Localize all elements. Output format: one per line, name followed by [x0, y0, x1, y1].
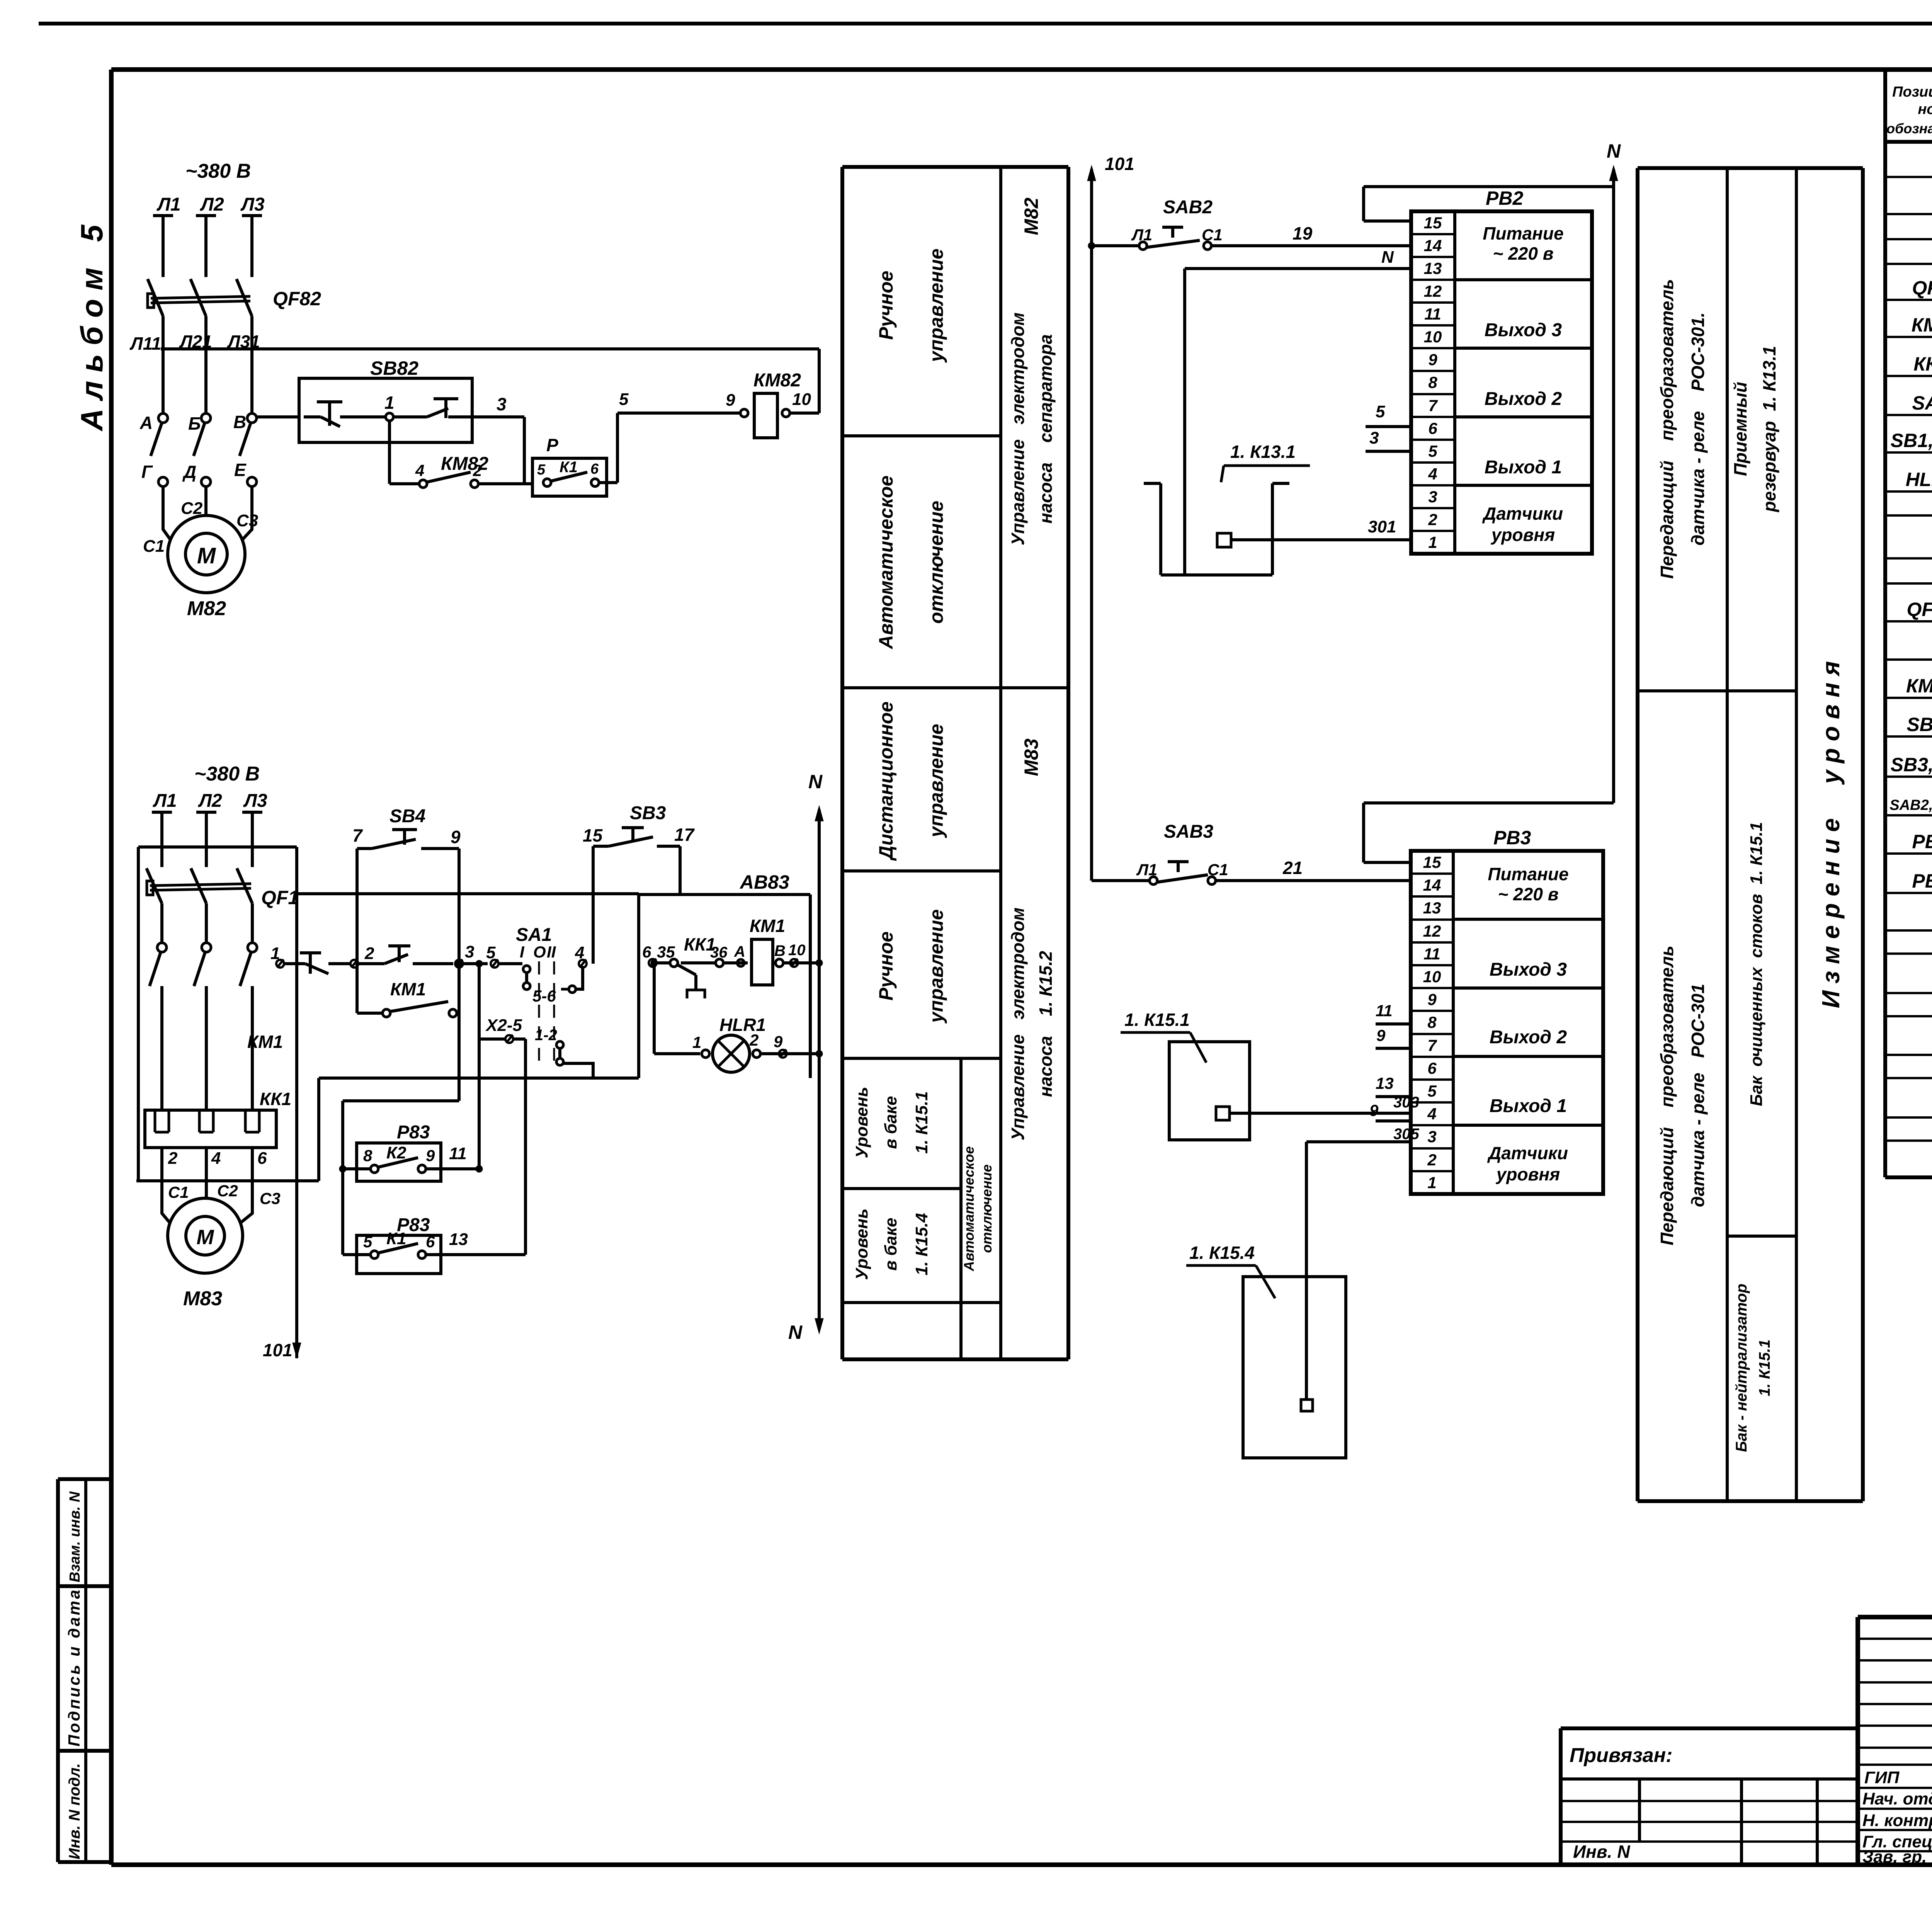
svg-text:QF1: QF1 — [1912, 277, 1932, 299]
svg-text:I: I — [520, 943, 525, 961]
svg-text:9: 9 — [1369, 1101, 1379, 1119]
svg-text:5: 5 — [363, 1233, 372, 1251]
svg-text:SB1,SB2: SB1,SB2 — [1891, 430, 1932, 451]
svg-text:Подпись и дата: Подпись и дата — [65, 1588, 83, 1747]
svg-text:Инв. N: Инв. N — [1573, 1842, 1630, 1862]
svg-text:С1: С1 — [1207, 861, 1228, 879]
svg-text:SB3,SB4: SB3,SB4 — [1891, 754, 1932, 776]
svg-text:1. К15.1: 1. К15.1 — [1756, 1340, 1773, 1396]
svg-text:2: 2 — [168, 1149, 178, 1168]
svg-text:Датчики: Датчики — [1487, 1143, 1568, 1163]
svg-text:Выход 2: Выход 2 — [1485, 389, 1562, 409]
svg-text:1. К15.4: 1. К15.4 — [912, 1213, 931, 1276]
svg-text:8: 8 — [363, 1146, 372, 1165]
svg-text:7: 7 — [1428, 396, 1438, 415]
svg-text:14: 14 — [1423, 876, 1441, 894]
svg-text:II: II — [547, 943, 556, 961]
svg-text:Выход 1: Выход 1 — [1485, 457, 1562, 478]
svg-text:КМ82: КМ82 — [1906, 675, 1932, 697]
svg-text:4: 4 — [1427, 1105, 1436, 1123]
svg-text:13: 13 — [1424, 259, 1442, 277]
svg-text:15: 15 — [1423, 853, 1441, 871]
svg-text:АВ83: АВ83 — [739, 871, 789, 893]
svg-text:9: 9 — [1376, 1026, 1386, 1044]
svg-text:Ручное: Ручное — [875, 932, 897, 1001]
svg-text:9: 9 — [451, 827, 461, 847]
svg-text:КК1: КК1 — [260, 1089, 291, 1109]
svg-text:С1: С1 — [143, 537, 165, 556]
svg-text:Д: Д — [182, 462, 196, 482]
svg-text:5: 5 — [537, 462, 546, 478]
svg-text:А: А — [734, 943, 745, 960]
svg-text:Взам. инв. N: Взам. инв. N — [67, 1491, 83, 1582]
svg-text:управление: управление — [925, 248, 947, 363]
svg-text:2: 2 — [1428, 510, 1437, 529]
svg-text:Приемный: Приемный — [1730, 382, 1750, 476]
svg-text:отключение: отключение — [979, 1164, 995, 1253]
svg-text:В: В — [233, 412, 246, 432]
svg-text:SAB3: SAB3 — [1164, 821, 1213, 842]
svg-text:SAB2,SAB3: SAB2,SAB3 — [1889, 797, 1932, 813]
svg-text:5: 5 — [619, 390, 629, 409]
svg-text:10: 10 — [792, 390, 811, 409]
svg-text:6: 6 — [642, 943, 651, 961]
svg-text:Л3: Л3 — [243, 791, 267, 811]
svg-text:Р: Р — [546, 435, 558, 455]
svg-text:КМ1: КМ1 — [247, 1032, 283, 1052]
svg-text:Выход 1: Выход 1 — [1490, 1096, 1567, 1116]
svg-text:2: 2 — [749, 1031, 759, 1049]
svg-text:М82: М82 — [1020, 197, 1042, 235]
svg-text:С1: С1 — [1202, 226, 1223, 244]
svg-text:Питание: Питание — [1488, 864, 1568, 884]
svg-text:Передающий преобразователь: Передающий преобразователь — [1657, 279, 1677, 579]
svg-text:1. К15.4: 1. К15.4 — [1189, 1243, 1255, 1263]
svg-text:К1: К1 — [560, 459, 578, 476]
svg-text:Передающий преобразователь: Передающий преобразователь — [1657, 946, 1677, 1245]
svg-text:управление: управление — [925, 909, 947, 1024]
svg-text:управление: управление — [925, 724, 947, 838]
svg-text:Х2-5: Х2-5 — [485, 1016, 522, 1035]
svg-text:5: 5 — [1376, 402, 1385, 421]
svg-text:9: 9 — [1428, 350, 1437, 369]
svg-text:датчика - реле РОС-301.: датчика - реле РОС-301. — [1688, 312, 1708, 546]
svg-text:уровня: уровня — [1496, 1164, 1560, 1184]
svg-text:КМ1: КМ1 — [750, 916, 785, 936]
svg-text:Л1: Л1 — [1131, 226, 1152, 244]
svg-text:в баке: в баке — [881, 1218, 900, 1270]
svg-text:отключение: отключение — [925, 501, 947, 624]
svg-text:М83: М83 — [183, 1287, 222, 1310]
svg-text:7: 7 — [1427, 1036, 1437, 1054]
svg-text:SB82: SB82 — [1906, 714, 1932, 735]
svg-text:Л11: Л11 — [129, 333, 161, 354]
svg-text:КМ82: КМ82 — [753, 370, 801, 391]
svg-text:уровня: уровня — [1491, 525, 1555, 545]
svg-text:6: 6 — [1427, 1059, 1437, 1077]
svg-text:1. К15.1: 1. К15.1 — [1124, 1010, 1190, 1030]
svg-text:N: N — [808, 771, 823, 793]
svg-text:ГИП: ГИП — [1864, 1768, 1900, 1787]
svg-text:2: 2 — [364, 944, 374, 963]
svg-text:РВ2: РВ2 — [1486, 187, 1523, 209]
svg-text:11: 11 — [1424, 305, 1441, 323]
svg-text:9: 9 — [1427, 990, 1437, 1009]
svg-text:6: 6 — [1428, 419, 1437, 437]
svg-text:Л2: Л2 — [200, 194, 224, 215]
svg-text:3: 3 — [465, 942, 474, 961]
svg-text:35: 35 — [657, 943, 675, 961]
svg-text:~380 В: ~380 В — [194, 763, 260, 785]
svg-text:14: 14 — [1424, 236, 1442, 255]
svg-text:SA1: SA1 — [1912, 392, 1932, 414]
svg-text:SAB2: SAB2 — [1163, 197, 1213, 218]
svg-text:К2: К2 — [386, 1143, 406, 1162]
svg-text:Датчики: Датчики — [1482, 503, 1563, 524]
svg-text:Альбом 5: Альбом 5 — [75, 216, 109, 432]
svg-text:Выход 2: Выход 2 — [1490, 1027, 1567, 1048]
svg-text:4: 4 — [211, 1149, 221, 1168]
svg-text:3: 3 — [497, 394, 507, 414]
svg-text:Бак очищенных стоков 1. К15: Бак очищенных стоков 1. К15.1 — [1747, 822, 1766, 1106]
svg-text:Уровень: Уровень — [852, 1208, 871, 1280]
svg-text:QF82: QF82 — [273, 288, 321, 310]
svg-text:2: 2 — [1427, 1151, 1436, 1169]
svg-text:Управление электродом: Управление электродом — [1008, 908, 1028, 1141]
svg-text:датчика - реле РОС-301: датчика - реле РОС-301 — [1688, 984, 1708, 1207]
svg-text:101: 101 — [1105, 154, 1134, 174]
svg-text:~380 В: ~380 В — [185, 160, 251, 182]
svg-text:11: 11 — [1423, 945, 1440, 963]
svg-text:1: 1 — [1428, 533, 1437, 551]
svg-text:10: 10 — [1424, 328, 1442, 346]
svg-text:6: 6 — [590, 461, 599, 477]
svg-text:Р83: Р83 — [397, 1122, 430, 1143]
svg-text:13: 13 — [449, 1230, 468, 1249]
svg-text:5: 5 — [1427, 1082, 1437, 1100]
svg-text:Б: Б — [188, 413, 201, 434]
svg-text:Питание: Питание — [1483, 223, 1563, 243]
svg-text:13: 13 — [1423, 899, 1441, 917]
svg-text:обозначение: обозначение — [1886, 121, 1932, 136]
svg-text:9: 9 — [426, 1146, 435, 1165]
svg-text:Л3: Л3 — [240, 194, 265, 215]
svg-text:N: N — [1607, 140, 1621, 162]
svg-text:N: N — [1381, 248, 1394, 267]
svg-text:Е: Е — [234, 460, 247, 480]
svg-text:РВ3: РВ3 — [1912, 870, 1932, 892]
svg-text:М83: М83 — [1020, 738, 1042, 776]
svg-text:HLR1: HLR1 — [1906, 469, 1932, 490]
svg-text:1: 1 — [384, 393, 395, 413]
svg-text:Дистанционное: Дистанционное — [875, 701, 897, 861]
svg-text:1: 1 — [1427, 1173, 1436, 1192]
svg-text:6: 6 — [426, 1233, 435, 1251]
svg-text:1-2: 1-2 — [535, 1027, 557, 1044]
svg-text:С2: С2 — [217, 1182, 238, 1200]
svg-text:КМ1: КМ1 — [390, 979, 426, 999]
svg-text:Н. контр.: Н. контр. — [1862, 1811, 1932, 1830]
svg-text:Управление электродом: Управление электродом — [1008, 313, 1028, 546]
svg-text:101: 101 — [263, 1340, 293, 1360]
svg-text:1. К15.1: 1. К15.1 — [912, 1091, 931, 1154]
svg-text:12: 12 — [1424, 282, 1442, 300]
svg-text:9: 9 — [774, 1032, 783, 1051]
svg-text:Л1: Л1 — [153, 791, 177, 811]
svg-text:10: 10 — [1423, 968, 1441, 986]
svg-text:SB4: SB4 — [389, 806, 425, 827]
svg-text:1: 1 — [692, 1033, 701, 1051]
svg-text:М: М — [197, 543, 216, 568]
svg-text:HLR1: HLR1 — [719, 1015, 766, 1035]
svg-text:5-6: 5-6 — [532, 987, 556, 1005]
svg-text:С3: С3 — [260, 1189, 281, 1207]
svg-text:М: М — [197, 1226, 214, 1249]
svg-text:303: 303 — [1393, 1094, 1419, 1111]
svg-text:насоса 1. К15.2: насоса 1. К15.2 — [1036, 951, 1056, 1097]
svg-text:9: 9 — [726, 391, 735, 410]
svg-text:13: 13 — [1376, 1074, 1394, 1092]
svg-text:11: 11 — [449, 1144, 467, 1163]
svg-text:Ручное: Ручное — [875, 271, 897, 340]
svg-text:QF82: QF82 — [1906, 599, 1932, 620]
svg-text:7: 7 — [352, 825, 363, 845]
svg-text:QF1: QF1 — [261, 887, 299, 908]
svg-text:ное: ное — [1918, 101, 1932, 117]
svg-text:Г: Г — [141, 462, 153, 482]
svg-text:11: 11 — [1376, 1002, 1393, 1020]
svg-text:15: 15 — [1424, 214, 1442, 232]
svg-text:SB82: SB82 — [370, 357, 418, 379]
svg-text:Выход 3: Выход 3 — [1490, 959, 1567, 980]
svg-text:Нач. отд.: Нач. отд. — [1862, 1789, 1932, 1808]
svg-text:Автоматическое: Автоматическое — [875, 476, 897, 650]
svg-text:РВ3: РВ3 — [1493, 827, 1531, 849]
svg-text:N: N — [788, 1321, 803, 1343]
svg-text:насоса сепаратора: насоса сепаратора — [1036, 334, 1056, 524]
svg-text:3: 3 — [1427, 1128, 1436, 1146]
svg-text:10: 10 — [788, 942, 806, 959]
svg-text:РВ2: РВ2 — [1912, 831, 1932, 852]
svg-text:Зав. гр.: Зав. гр. — [1862, 1847, 1927, 1866]
svg-text:3: 3 — [1369, 429, 1379, 447]
svg-text:Инв. N подл.: Инв. N подл. — [66, 1763, 83, 1859]
svg-text:А: А — [139, 413, 153, 433]
svg-text:15: 15 — [583, 825, 603, 845]
svg-text:12: 12 — [1423, 922, 1441, 940]
svg-text:С1: С1 — [168, 1183, 189, 1201]
svg-text:К1: К1 — [386, 1229, 406, 1248]
svg-text:в баке: в баке — [881, 1096, 900, 1149]
svg-text:O: O — [533, 943, 546, 961]
svg-text:Позицион-: Позицион- — [1892, 84, 1932, 100]
svg-text:С3: С3 — [236, 511, 258, 530]
svg-text:8: 8 — [1427, 1013, 1437, 1031]
svg-text:Л1: Л1 — [1136, 861, 1157, 879]
svg-text:Бак - нейтрализатор: Бак - нейтрализатор — [1733, 1284, 1750, 1452]
svg-text:С2: С2 — [181, 499, 203, 518]
svg-text:Автоматическое: Автоматическое — [961, 1146, 977, 1271]
svg-text:305: 305 — [1393, 1126, 1419, 1143]
svg-text:Уровень: Уровень — [852, 1087, 871, 1158]
svg-text:Выход 3: Выход 3 — [1485, 320, 1562, 340]
svg-text:8: 8 — [1428, 373, 1437, 391]
svg-text:6: 6 — [257, 1149, 267, 1168]
svg-text:~ 220 в: ~ 220 в — [1493, 243, 1554, 264]
svg-text:И з м е р е н и е у р о в: И з м е р е н и е у р о в н я — [1817, 661, 1845, 1009]
svg-text:5: 5 — [1428, 442, 1437, 460]
svg-text:резервуар 1. К13.1: резервуар 1. К13.1 — [1759, 346, 1779, 513]
svg-text:Л1: Л1 — [156, 194, 181, 215]
svg-text:4: 4 — [415, 461, 424, 480]
svg-text:Привязан:: Привязан: — [1570, 1744, 1672, 1767]
svg-text:17: 17 — [674, 825, 695, 845]
svg-text:КМ1: КМ1 — [1912, 314, 1932, 336]
svg-text:1. К13.1: 1. К13.1 — [1230, 442, 1296, 462]
svg-text:21: 21 — [1282, 858, 1303, 878]
svg-text:36: 36 — [710, 944, 728, 961]
svg-text:КМ82: КМ82 — [441, 454, 488, 474]
svg-text:SB3: SB3 — [630, 803, 666, 823]
svg-text:Л2: Л2 — [198, 791, 222, 811]
svg-text:3: 3 — [1428, 488, 1437, 506]
svg-text:В: В — [774, 942, 786, 959]
svg-text:SA1: SA1 — [516, 925, 552, 945]
svg-text:19: 19 — [1293, 223, 1313, 243]
svg-text:КК1: КК1 — [1913, 353, 1932, 375]
svg-text:4: 4 — [1428, 465, 1437, 483]
svg-text:М82: М82 — [187, 597, 226, 620]
svg-text:~ 220 в: ~ 220 в — [1498, 884, 1559, 904]
svg-text:301: 301 — [1368, 517, 1396, 536]
